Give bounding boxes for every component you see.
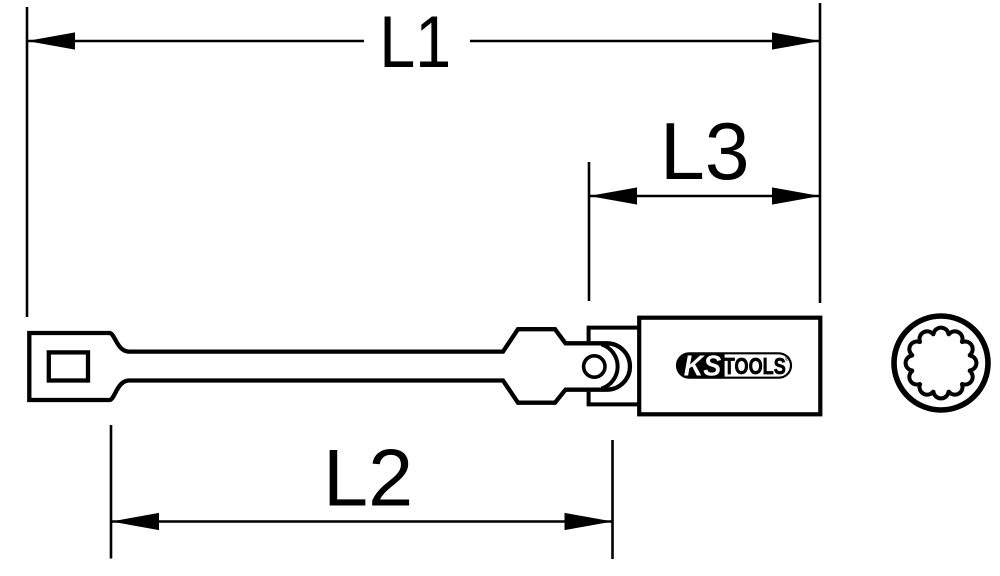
dimension L2 line <box>111 520 613 523</box>
dimension L1 extension line left <box>26 7 29 317</box>
universal joint ball arc <box>602 344 618 388</box>
KS TOOLS logo <box>677 351 791 383</box>
dimension L3 arrow left <box>589 187 637 204</box>
dimension L3 extension line left <box>588 162 591 301</box>
socket body rectangle <box>639 318 820 415</box>
dimension L3 line <box>589 195 820 198</box>
svg-text:L1: L1 <box>379 2 451 83</box>
svg-text:L3: L3 <box>660 107 750 197</box>
dimension L2 arrow right <box>565 513 613 530</box>
wrench body outline: head, shaft, yoke octagon, tongue with round cap <box>29 329 630 403</box>
dimension L2 arrow left <box>111 513 159 530</box>
svg-text:TOOLS: TOOLS <box>724 353 786 379</box>
socket end view 12-point profile <box>906 328 977 399</box>
square drive hole in head <box>49 352 88 380</box>
joint bracket (C-shape) <box>589 328 640 405</box>
dimension L2 extension line left <box>110 425 113 559</box>
dimension L1 arrow left <box>27 32 75 49</box>
socket end view outer circle <box>894 316 988 410</box>
logo stadium outline <box>677 353 791 377</box>
dimension L2 extension line right <box>611 440 614 559</box>
dimension L1 arrow right <box>772 32 820 49</box>
dimension L1 line <box>27 40 364 43</box>
foot of digit 1 <box>429 62 448 67</box>
dimension L1/L3 extension line right <box>819 3 822 303</box>
logo black left half <box>677 353 725 377</box>
svg-text:L2: L2 <box>323 433 413 523</box>
dimension L3 arrow right <box>772 187 820 204</box>
universal joint pin circle <box>584 356 605 377</box>
svg-text:®: ® <box>785 355 790 363</box>
svg-text:KS: KS <box>684 351 722 383</box>
